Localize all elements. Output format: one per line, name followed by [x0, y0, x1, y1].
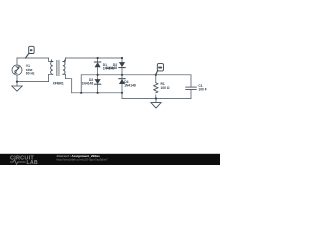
svg-text:100 Ω: 100 Ω: [161, 86, 170, 90]
svg-text:1N4148: 1N4148: [124, 84, 136, 88]
svg-text:1N4148: 1N4148: [82, 82, 94, 86]
svg-text:LAB: LAB: [27, 160, 38, 165]
svg-text:1N4148: 1N4148: [105, 66, 117, 70]
svg-text:100 F: 100 F: [198, 88, 206, 92]
svg-text:http://circuitlab.com/c26-5gm7: http://circuitlab.com/c26-5gm7ap5dar7: [57, 157, 108, 161]
svg-text:XFMR1: XFMR1: [53, 82, 64, 86]
svg-text:60 Hz: 60 Hz: [26, 72, 35, 76]
